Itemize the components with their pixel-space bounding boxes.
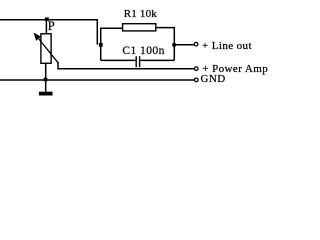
wire input top (0, 20, 97, 45)
svg-text:GND: GND (201, 73, 226, 85)
wire gnd rail (0, 79, 194, 81)
wire wiper to power amp (58, 62, 194, 69)
potentiometer P body (41, 34, 51, 64)
resistor R1 (123, 24, 156, 31)
wire pot bottom lead (45, 63, 47, 80)
node R branch left (99, 43, 103, 47)
capacitor C1 (101, 59, 136, 61)
terminal power amp (194, 67, 198, 71)
ground (45, 80, 47, 92)
svg-text:+ Line out: + Line out (202, 40, 252, 52)
terminal gnd (195, 78, 199, 82)
svg-text:C1 100n: C1 100n (122, 45, 164, 57)
potentiometer P wiper arrow (39, 39, 58, 62)
wire R1 right lead (156, 28, 175, 61)
wire line out (174, 44, 194, 46)
svg-text:R1 10k: R1 10k (124, 8, 158, 20)
node pot bottom (44, 78, 48, 82)
wire R1 left lead (101, 28, 123, 60)
wire pot top lead (45, 20, 47, 34)
node pot top (45, 17, 49, 21)
terminal line out (194, 42, 198, 46)
svg-text:P: P (48, 19, 55, 33)
node R branch right (172, 43, 176, 47)
